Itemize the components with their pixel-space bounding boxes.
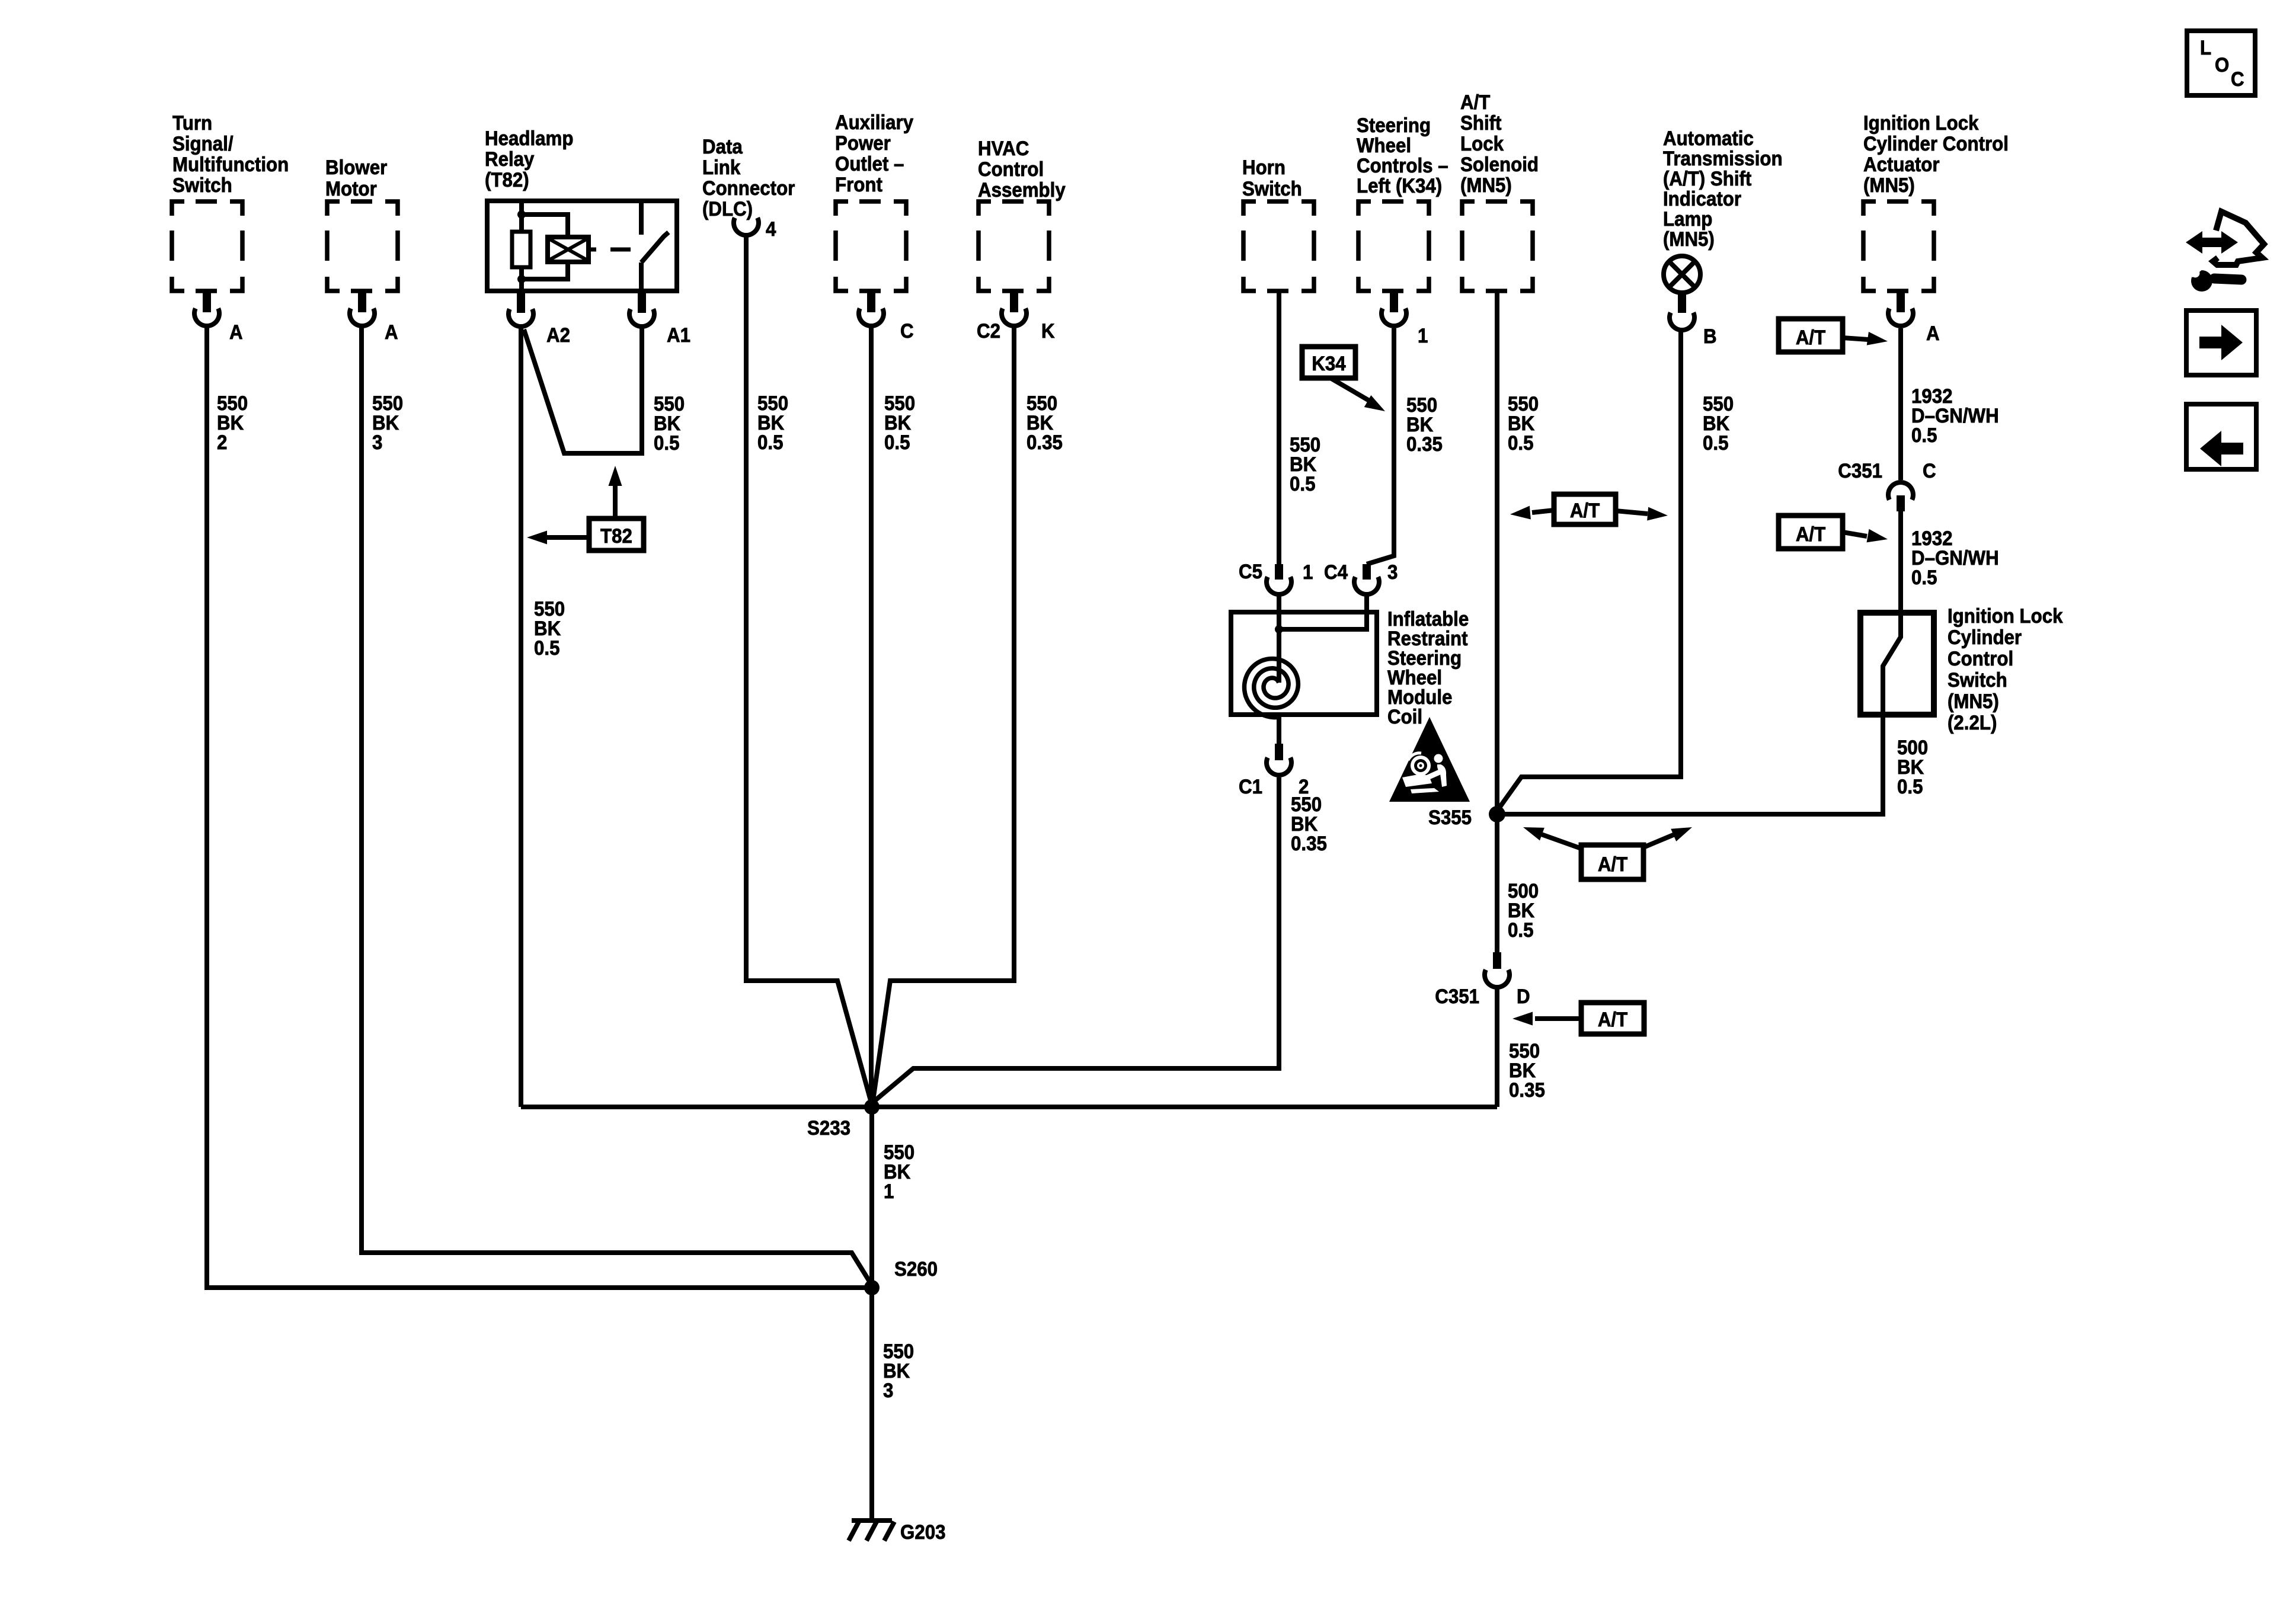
svg-text:S355: S355: [1428, 806, 1472, 829]
svg-text:Wheel: Wheel: [1357, 134, 1411, 157]
wire: C351 C to ignition switch 1932 D-GN/WH 0.5: [1898, 511, 1903, 610]
svg-text:A2: A2: [546, 324, 570, 347]
svg-text:0.5: 0.5: [1290, 472, 1315, 495]
connector C351 D inline: [1493, 952, 1501, 969]
svg-text:0.5: 0.5: [757, 431, 783, 454]
svg-text:3: 3: [883, 1379, 893, 1402]
svg-text:Coil: Coil: [1387, 705, 1422, 728]
svg-text:C1: C1: [1239, 775, 1262, 798]
svg-text:0.5: 0.5: [654, 431, 679, 454]
svg-text:L: L: [2200, 36, 2211, 59]
svg-text:(MN5): (MN5): [1460, 174, 1512, 197]
wire: S233 to S260 550 BK 1 then to G203 550 BK 3: [869, 1107, 874, 1521]
relay resistor: [512, 232, 530, 267]
svg-text:O: O: [2215, 53, 2229, 76]
svg-text:Indicator: Indicator: [1663, 187, 1741, 210]
svg-text:B: B: [1703, 325, 1717, 348]
svg-text:A/T: A/T: [1598, 853, 1627, 876]
SRS warning triangle with airbag pictogram: [1389, 717, 1470, 802]
svg-text:Ignition Lock: Ignition Lock: [1948, 604, 2063, 628]
left arrow legend box: [2186, 404, 2256, 469]
svg-text:Switch: Switch: [172, 174, 232, 197]
connector C5: [1275, 564, 1283, 580]
wire: shift indicator lamp B 550 BK 0.5: [1498, 332, 1681, 810]
wire: steering wheel controls K34 550 BK 0.35: [1367, 328, 1394, 610]
relay switch: [641, 201, 669, 293]
svg-text:0.5: 0.5: [534, 636, 559, 660]
svg-text:Blower: Blower: [325, 156, 388, 179]
svg-text:Front: Front: [835, 173, 882, 196]
relay coil branch wiring: [522, 201, 568, 293]
wire: coil C1 to S233 550 BK 0.35: [873, 717, 1279, 1102]
svg-text:Motor: Motor: [325, 177, 377, 200]
svg-text:C5: C5: [1239, 560, 1262, 583]
svg-text:(MN5): (MN5): [1948, 690, 1999, 713]
svg-text:Steering: Steering: [1357, 114, 1431, 137]
svg-text:Ignition Lock: Ignition Lock: [1863, 111, 1979, 135]
svg-text:K: K: [1041, 319, 1055, 343]
svg-text:Signal/: Signal/: [172, 132, 234, 155]
svg-text:Connector: Connector: [702, 177, 795, 200]
component: A/T Shift Lock Solenoid (MN5): [1462, 201, 1533, 291]
svg-text:Automatic: Automatic: [1663, 127, 1754, 150]
wire: auxiliary power outlet 550 BK 0.5: [869, 327, 874, 1106]
connector C2 K hvac: [1002, 293, 1027, 326]
wire: DLC 550 BK 0.5: [746, 236, 871, 1100]
node S260: [864, 1280, 880, 1295]
svg-text:C351: C351: [1435, 985, 1479, 1008]
svg-text:A: A: [385, 321, 398, 344]
connector A turn signal: [194, 293, 219, 326]
component: Ignition Lock Cylinder Control Actuator (MN5): [1863, 201, 1934, 291]
svg-text:Actuator: Actuator: [1863, 153, 1940, 176]
connector B lamp: [1670, 313, 1694, 331]
wire: HVAC control assembly 550 BK 0.35: [873, 327, 1014, 1100]
component: HVAC Control Assembly: [978, 201, 1049, 291]
svg-text:Power: Power: [835, 132, 891, 155]
connector A2: [509, 293, 533, 327]
relay coil with X: [548, 237, 589, 262]
svg-text:3: 3: [1387, 561, 1398, 584]
A/T locator box 2 double arrow: [1554, 494, 1616, 524]
node S355: [1489, 806, 1505, 822]
svg-text:1: 1: [1303, 561, 1313, 584]
svg-text:3: 3: [372, 431, 382, 454]
node S233: [864, 1099, 880, 1115]
svg-text:K34: K34: [1312, 352, 1345, 375]
connector 1 steering: [1382, 293, 1406, 326]
svg-text:Multifunction: Multifunction: [172, 153, 289, 176]
svg-text:Relay: Relay: [485, 148, 534, 171]
svg-text:Outlet –: Outlet –: [835, 152, 904, 175]
svg-text:0.5: 0.5: [1508, 431, 1533, 454]
svg-text:(DLC): (DLC): [702, 197, 753, 220]
wire: A/T shift lock solenoid 550 BK 0.5 through S355: [1495, 291, 1499, 952]
svg-text:A/T: A/T: [1796, 326, 1825, 349]
svg-text:C351: C351: [1838, 459, 1882, 482]
svg-text:C4: C4: [1324, 561, 1348, 584]
svg-text:Link: Link: [702, 156, 741, 179]
component: Ignition Lock Cylinder Control Switch (MN5)(2.2L): [1860, 613, 1934, 715]
svg-text:0.35: 0.35: [1291, 832, 1327, 855]
connector A1: [629, 293, 654, 327]
svg-text:(2.2L): (2.2L): [1948, 711, 1997, 734]
svg-text:2: 2: [217, 431, 227, 454]
wire: C351 D to S233 550 BK 0.35: [1495, 988, 1499, 1107]
svg-text:Switch: Switch: [1242, 177, 1302, 200]
svg-text:A: A: [229, 321, 243, 344]
svg-text:0.5: 0.5: [1897, 775, 1923, 798]
clockspring spiral: [1245, 659, 1299, 718]
component: Inflatable Restraint Steering Wheel Module Coil: [1231, 612, 1377, 715]
svg-text:Cylinder: Cylinder: [1948, 626, 2022, 649]
svg-text:G203: G203: [900, 1521, 945, 1544]
svg-text:A/T: A/T: [1570, 499, 1600, 522]
svg-text:1: 1: [1418, 324, 1428, 347]
svg-text:0.5: 0.5: [1911, 566, 1937, 589]
wire: headlamp relay A1 550 BK 0.5 loop: [524, 327, 642, 453]
connector C aux: [859, 293, 884, 326]
A/T locator box 1 with arrow: [1779, 319, 1843, 352]
svg-text:HVAC: HVAC: [978, 137, 1029, 160]
T82 locator box with arrows: [589, 518, 644, 550]
svg-text:A/T: A/T: [1598, 1008, 1627, 1031]
svg-text:C: C: [2231, 68, 2244, 91]
svg-text:Control: Control: [1948, 647, 2013, 670]
svg-text:Turn: Turn: [172, 111, 212, 135]
svg-text:0.35: 0.35: [1027, 431, 1063, 454]
component: Blower Motor: [327, 201, 398, 291]
wire: horn switch wire to coil C5: [1277, 291, 1281, 610]
svg-text:Assembly: Assembly: [978, 178, 1066, 201]
svg-text:T82: T82: [600, 524, 632, 548]
connector C4: [1363, 564, 1371, 580]
svg-text:C: C: [1923, 459, 1936, 482]
svg-text:Lock: Lock: [1460, 132, 1504, 155]
svg-text:Cylinder Control: Cylinder Control: [1863, 132, 2009, 155]
svg-text:Left (K34): Left (K34): [1357, 174, 1442, 197]
svg-text:Shift: Shift: [1460, 111, 1502, 135]
connector 4 DLC: [734, 218, 759, 236]
svg-text:0.5: 0.5: [884, 431, 910, 454]
svg-text:Data: Data: [702, 135, 743, 158]
svg-text:C: C: [900, 319, 914, 343]
K34 locator box with arrow: [1302, 347, 1355, 378]
svg-text:(T82): (T82): [485, 168, 529, 191]
wire: headlamp relay A2 550 BK 0.5: [519, 327, 523, 1107]
coil internal wiring: [1279, 610, 1367, 683]
wire: S355 to ignition lock cylinder switch 500 BK 0.5: [1497, 717, 1883, 814]
svg-text:C2: C2: [977, 319, 1000, 343]
wire: S233 ground bus horizontal: [521, 1105, 1497, 1109]
svg-text:A/T: A/T: [1460, 91, 1490, 114]
svg-text:Controls –: Controls –: [1357, 154, 1448, 177]
svg-text:1: 1: [884, 1180, 894, 1203]
svg-text:Control: Control: [978, 158, 1044, 181]
svg-text:(MN5): (MN5): [1663, 228, 1715, 251]
svg-text:Lamp: Lamp: [1663, 207, 1712, 231]
lamp symbol: [1664, 256, 1700, 293]
LOC legend box: [2187, 31, 2255, 95]
svg-text:Switch: Switch: [1948, 668, 2007, 692]
svg-text:A: A: [1926, 322, 1940, 345]
svg-text:0.5: 0.5: [1703, 431, 1728, 454]
svg-text:0.35: 0.35: [1509, 1078, 1545, 1102]
svg-text:Solenoid: Solenoid: [1460, 153, 1539, 176]
right arrow legend box: [2186, 311, 2256, 375]
svg-text:4: 4: [766, 217, 776, 241]
wire: blower motor 550 BK 3: [362, 327, 870, 1282]
svg-text:(MN5): (MN5): [1863, 174, 1915, 197]
svg-text:Transmission: Transmission: [1663, 147, 1783, 170]
A/T locator box 3 double diagonal arrows: [1581, 845, 1643, 879]
svg-text:0.5: 0.5: [1911, 424, 1937, 447]
svg-text:A/T: A/T: [1796, 523, 1825, 546]
connector A blower: [350, 293, 375, 326]
relay actuator dashed link: [589, 248, 631, 252]
svg-text:Horn: Horn: [1242, 156, 1285, 179]
svg-text:0.5: 0.5: [1508, 918, 1533, 942]
A/T locator box 5 with arrow: [1779, 516, 1843, 549]
svg-text:D: D: [1517, 985, 1530, 1008]
ground G203: [849, 1521, 894, 1541]
component: Steering Wheel Controls - Left (K34): [1358, 201, 1429, 291]
svg-text:A1: A1: [667, 324, 690, 347]
svg-text:S233: S233: [807, 1116, 850, 1140]
svg-text:0.35: 0.35: [1406, 433, 1443, 456]
connector C1: [1275, 744, 1283, 760]
A/T locator box 4 with arrow: [1581, 1003, 1644, 1034]
component: Turn Signal/Multifunction Switch: [172, 201, 242, 291]
wire: turn signal switch 550 BK 2: [207, 327, 868, 1288]
svg-text:Headlamp: Headlamp: [485, 127, 573, 150]
component: Horn Switch: [1243, 201, 1314, 291]
svg-text:S260: S260: [894, 1257, 938, 1281]
svg-text:Auxiliary: Auxiliary: [835, 111, 913, 134]
wire: ignition actuator A 1932 D-GN/WH 0.5: [1898, 328, 1903, 480]
component: Auxiliary Power Outlet - Front: [836, 201, 906, 291]
svg-text:(A/T) Shift: (A/T) Shift: [1663, 167, 1751, 190]
connector A actuator: [1888, 293, 1913, 326]
diagnostic icon: double arrow, outline arrow, wrench: [2186, 212, 2264, 292]
